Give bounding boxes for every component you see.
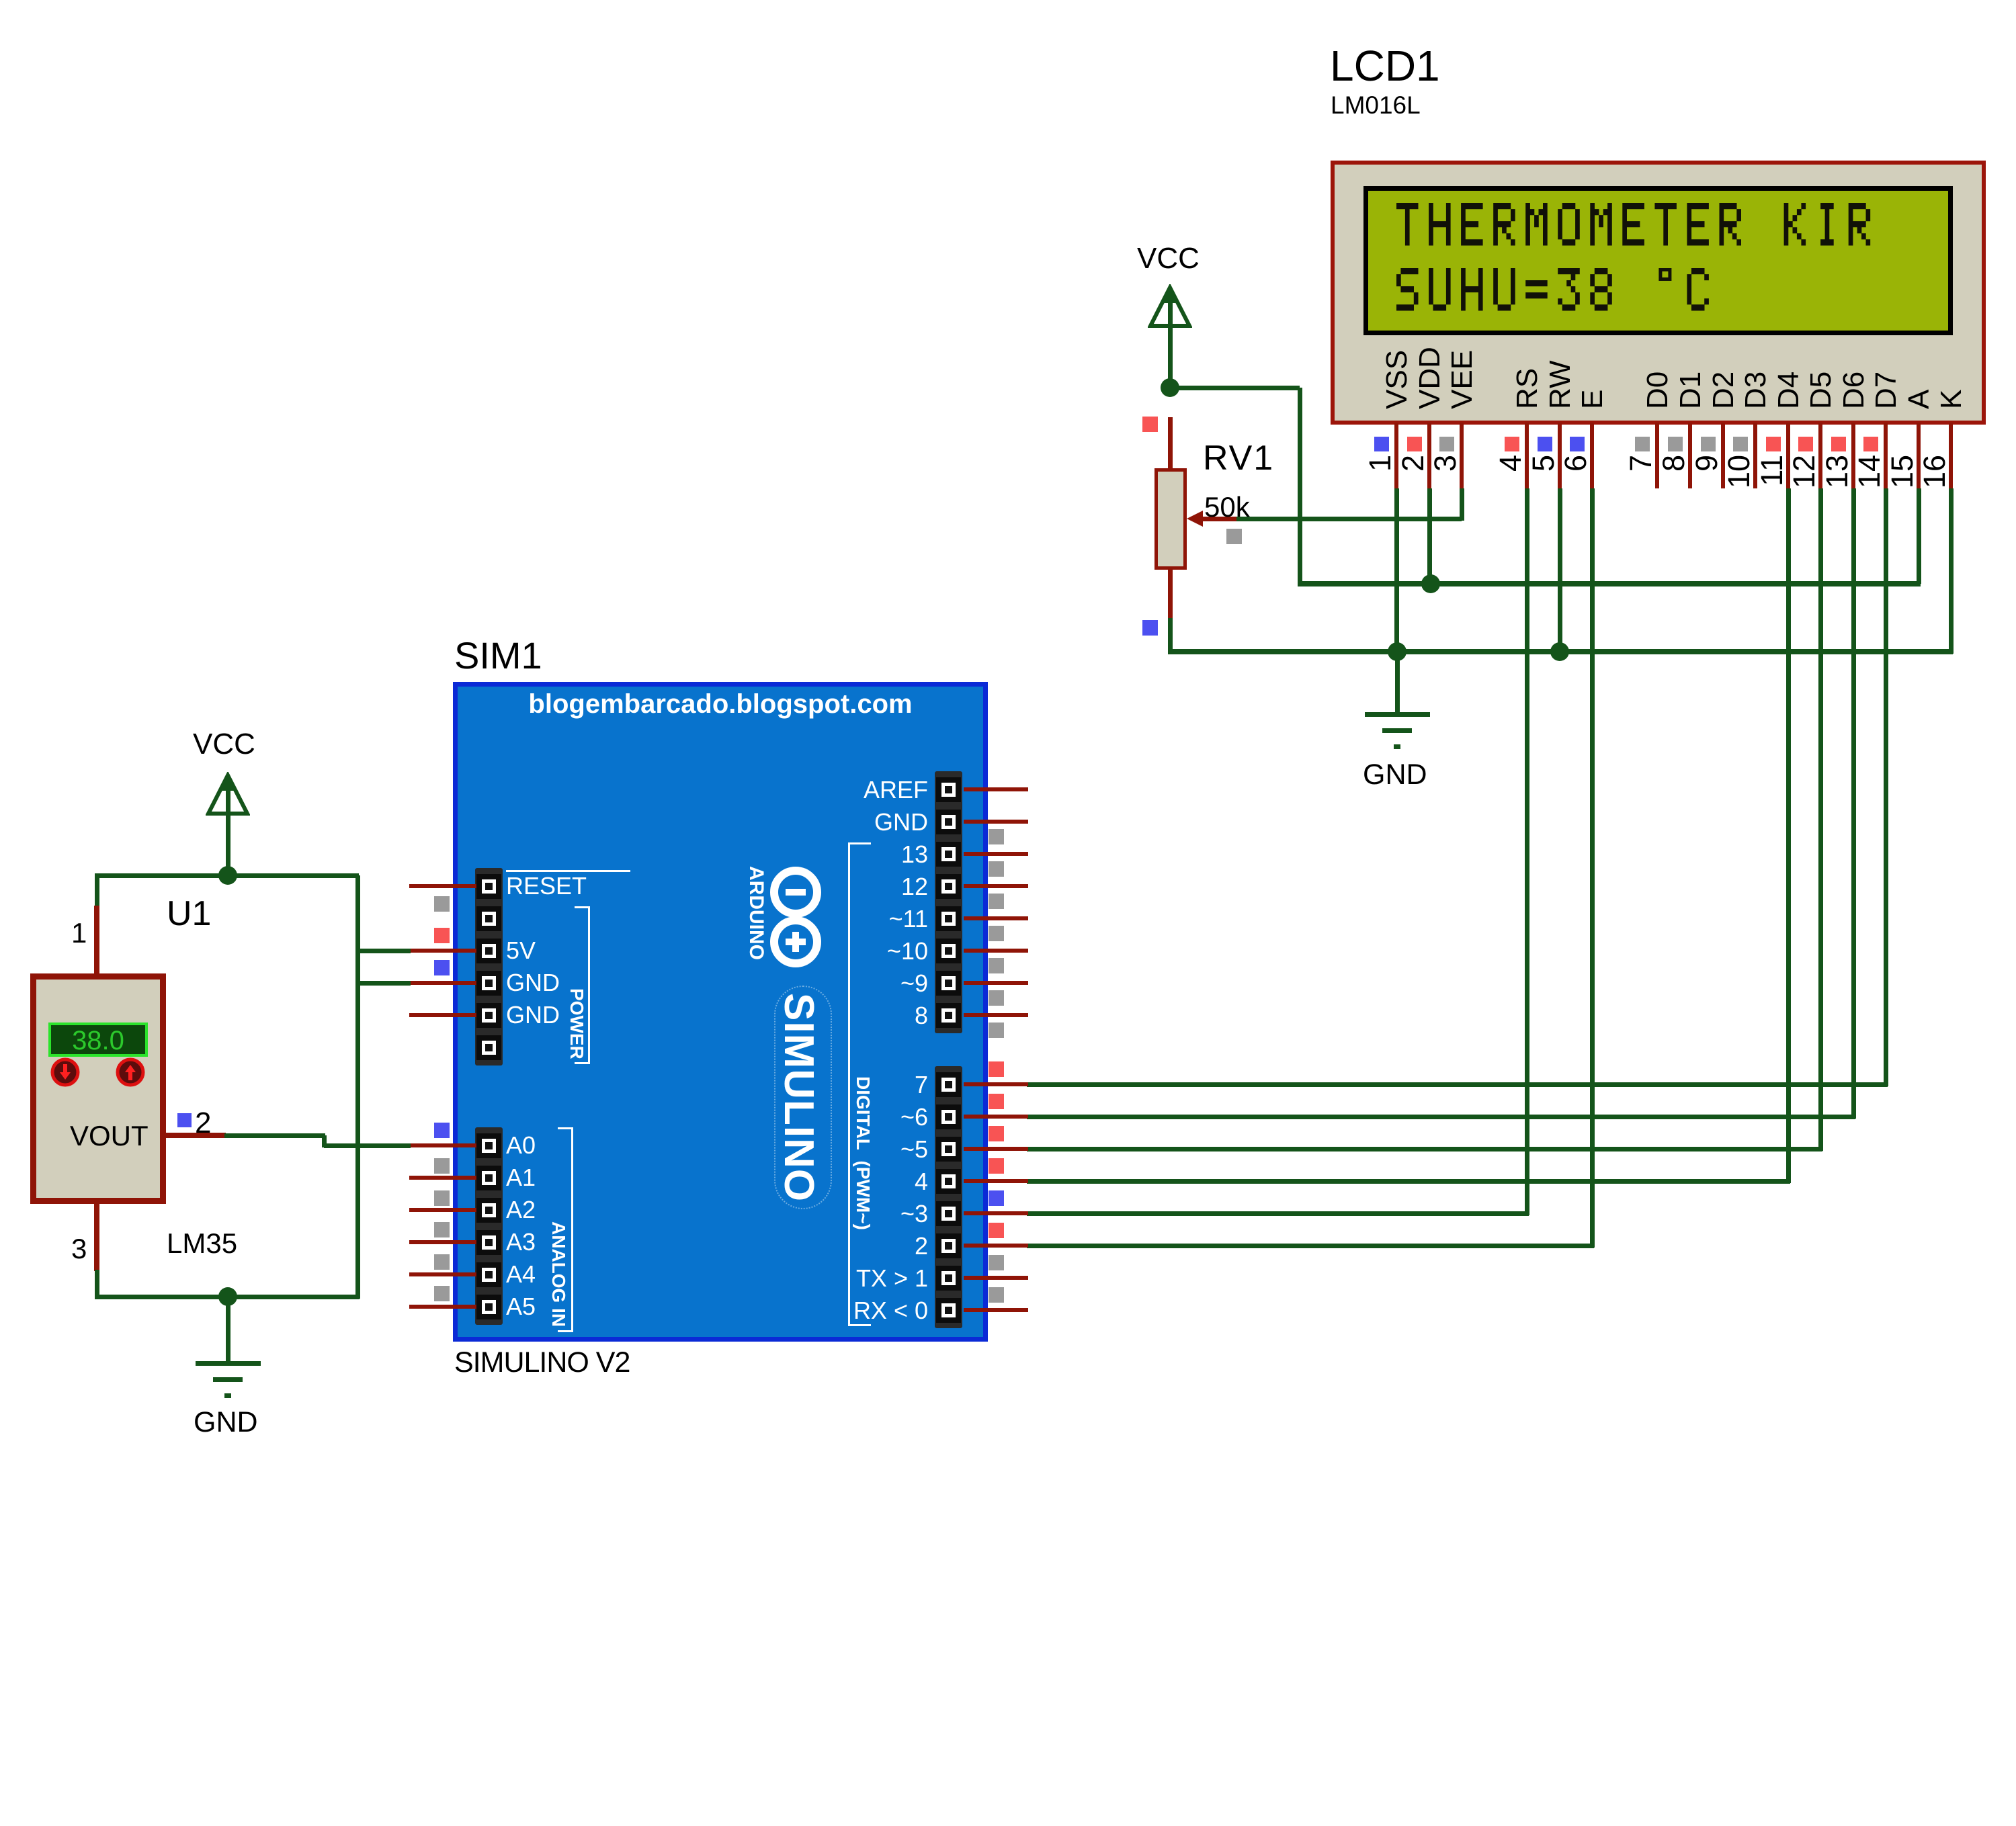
ground symbol (LCD) — [1365, 712, 1430, 717]
wire pin3 down — [95, 1270, 99, 1299]
square gray tr2 — [989, 894, 1004, 909]
wire LCD VSS vertical — [1394, 488, 1399, 652]
arduino pin stub AREF — [964, 787, 1028, 791]
wire digital3 to RS — [1027, 1211, 1529, 1216]
label 12 — [659, 875, 928, 899]
arduino pin stub RESET — [409, 884, 476, 888]
LM35 body — [30, 973, 166, 1204]
LCD pin 2 stub — [1427, 423, 1431, 488]
LCD1 type label LM016L — [1331, 93, 1421, 118]
arduino pin stub RX0 — [964, 1308, 1028, 1312]
arduino pin stub ~11 — [964, 916, 1028, 920]
wire VOUT — [224, 1133, 325, 1138]
SIMULINO V2 label — [454, 1348, 630, 1377]
junction dot VSS/GND — [1388, 642, 1406, 661]
square blue GND — [434, 960, 450, 975]
wire down to VCC bus — [1298, 388, 1302, 586]
LCD pin 8 state square — [1668, 437, 1683, 451]
pin number 2 (U1) — [195, 1108, 211, 1138]
arduino pin stub ~6 — [964, 1115, 1028, 1119]
LM35 display — [48, 1023, 148, 1057]
LCD pin 11 stub — [1786, 423, 1790, 488]
wire VCC horizontal — [95, 873, 359, 878]
label digital 4 — [659, 1170, 928, 1194]
RV1 wiper state square — [1226, 529, 1242, 544]
analog header strip — [475, 1127, 503, 1325]
POWER bracket — [575, 906, 590, 908]
LCD pin label VSS — [1382, 208, 1412, 409]
LCD pin 9 state square — [1701, 437, 1716, 451]
LCD pin number 6 — [1560, 455, 1591, 488]
label A5 — [506, 1295, 536, 1319]
LCD pin label D7 — [1872, 208, 1901, 409]
ANALOG IN label — [549, 1221, 568, 1826]
wire LCD D6 vertical — [1851, 488, 1856, 1119]
RV1 pin1 stub — [1168, 417, 1173, 468]
wire GND stem (LCD) — [1395, 652, 1400, 712]
arduino pin stub A3 — [409, 1240, 476, 1244]
wire LCD E vertical — [1590, 488, 1595, 1248]
VCC bus to LCD A — [1298, 581, 1921, 586]
square blue pin2 — [177, 1113, 192, 1127]
RV1 label — [1203, 441, 1274, 476]
LCD pin label A — [1904, 208, 1934, 409]
LCD pin label VEE — [1447, 208, 1477, 409]
wire LCD RS vertical — [1525, 488, 1529, 1215]
LCD pin 11 state square — [1766, 437, 1781, 451]
SIM1 reference label — [454, 637, 542, 675]
LCD pin number 15 — [1887, 455, 1917, 488]
label digital TX &gt; 1 — [659, 1266, 928, 1291]
wire digital7 to D7 — [1027, 1082, 1888, 1087]
junction dot VDD — [1421, 574, 1440, 593]
square blue A0 — [434, 1123, 450, 1138]
arduino board SIM1 — [453, 682, 988, 1342]
LM35 button up — [115, 1057, 146, 1088]
ARDUINO logo text — [746, 866, 766, 1471]
LCD pin label D3 — [1741, 208, 1771, 409]
LM35 pin3 stub — [94, 1204, 99, 1271]
LCD pin 14 state square — [1863, 437, 1878, 451]
RV1 state square top — [1142, 417, 1158, 432]
label 5V — [506, 939, 536, 963]
pin number 1 (U1) — [71, 919, 87, 947]
LCD pin label RS — [1513, 208, 1542, 409]
label digital ~6 — [659, 1105, 928, 1129]
LCD pin number 13 — [1822, 455, 1852, 488]
LCD pin 1 state square — [1374, 437, 1389, 451]
wire digital2 to E — [1027, 1244, 1594, 1248]
label digital ~3 — [659, 1202, 928, 1226]
SIMULINO label — [778, 993, 819, 1598]
bottomright header strip — [935, 1066, 962, 1328]
square gray A2 — [434, 1190, 450, 1206]
wire LCD K vertical — [1949, 488, 1954, 654]
arduino pin stub ~10 — [964, 949, 1028, 953]
square br5 — [989, 1223, 1004, 1238]
LCD pin number 11 — [1757, 455, 1787, 488]
DIGITAL PWM label — [853, 1076, 872, 1681]
label GND — [506, 971, 560, 995]
SIMULINO outline — [774, 986, 832, 1209]
RV1 pin3 stub — [1168, 570, 1173, 619]
arduino pin stub 2 — [964, 1244, 1028, 1248]
arduino pin stub TX1 — [964, 1276, 1028, 1280]
square br2 — [989, 1126, 1004, 1141]
LCD pin 14 stub — [1884, 423, 1888, 488]
wire GND horizontal (LM35) — [95, 1295, 360, 1299]
LCD pin label D6 — [1839, 208, 1869, 409]
wire GND lead — [357, 981, 411, 986]
junction dot RW/GND — [1550, 642, 1569, 661]
wire junction right — [1168, 386, 1300, 390]
square gray A5 — [434, 1286, 450, 1301]
label GND — [659, 810, 928, 834]
square gray tr3 — [989, 926, 1004, 941]
label A3 — [506, 1230, 536, 1254]
LCD pin 3 stub — [1460, 423, 1464, 488]
label ~10 — [659, 939, 928, 963]
LCD pin 4 stub — [1525, 423, 1529, 488]
LCD text line1 THERMOMETER KIR — [0, 0, 2016, 470]
label AREF — [659, 778, 928, 802]
square gray RESET — [434, 896, 450, 912]
LCD pin number 4 — [1495, 455, 1525, 488]
label ~11 — [659, 907, 928, 931]
RV1 state square bottom — [1142, 620, 1158, 636]
LCD pin label D0 — [1643, 208, 1673, 409]
LCD1 body — [1331, 161, 1986, 425]
label digital 7 — [659, 1073, 928, 1097]
RESET divider line — [506, 870, 630, 872]
arduino pin stub A5 — [409, 1305, 476, 1309]
LCD pin 13 stub — [1851, 423, 1855, 488]
wire A0 lead — [324, 1143, 411, 1148]
wire VOUT to A0 — [324, 1143, 411, 1148]
LCD pin number 10 — [1724, 455, 1754, 488]
pin number 3 (U1) — [71, 1235, 87, 1263]
label A1 — [506, 1166, 536, 1190]
arduino pin stub 5V — [409, 949, 476, 953]
LCD pin 12 stub — [1818, 423, 1822, 488]
LCD1 screen — [1363, 186, 1953, 335]
arduino pin stub ~3 — [964, 1211, 1028, 1215]
label A2 — [506, 1198, 536, 1222]
square br1 — [989, 1094, 1004, 1109]
LCD pin number 1 — [1365, 455, 1395, 488]
label GND2 — [506, 1003, 560, 1027]
arduino pin stub A4 — [409, 1272, 476, 1276]
arduino pin stub 12 — [964, 884, 1028, 888]
wire RV1 bottom to GND bus — [1168, 618, 1173, 654]
LCD pin 5 state square — [1538, 437, 1552, 451]
blogembarcado.blogspot.com title — [453, 691, 988, 718]
arduino logo circles — [762, 859, 836, 980]
LCD pin label D1 — [1676, 208, 1706, 409]
U1 reference label — [167, 896, 211, 931]
topright header strip — [935, 771, 962, 1033]
arduino pin stub A2 — [409, 1208, 476, 1212]
arduino pin stub 8 — [964, 1013, 1028, 1017]
LCD pin number 3 — [1430, 455, 1460, 488]
LCD pin 6 state square — [1570, 437, 1585, 451]
GND label (LCD) — [1363, 760, 1427, 789]
ANALOG IN bracket — [558, 1127, 573, 1129]
GND label (LM35) — [194, 1408, 258, 1437]
square gray tr6 — [989, 1023, 1004, 1038]
GND bus — [1168, 649, 1953, 654]
label RESET — [506, 874, 587, 898]
LCD pin number 5 — [1528, 455, 1558, 488]
wire digital5 to D5 — [1027, 1147, 1822, 1151]
LCD pin 12 state square — [1798, 437, 1813, 451]
LCD pin 10 stub — [1753, 423, 1757, 488]
LM35 pin2 stub — [166, 1133, 226, 1138]
LCD pin 7 stub — [1655, 423, 1659, 488]
arduino pin stub ~9 — [964, 981, 1028, 985]
wire digital4 to D4 — [1027, 1179, 1790, 1184]
DIGITAL bracket — [848, 842, 871, 844]
VCC label (RV1) — [1137, 244, 1200, 273]
LCD pin 4 state square — [1505, 437, 1519, 451]
wire VCC down (LM35) — [226, 816, 230, 877]
LCD pin label E — [1578, 208, 1607, 409]
LCD pin 16 stub — [1949, 423, 1953, 488]
RV1 value 50k — [1204, 493, 1250, 521]
square br6 — [989, 1255, 1004, 1270]
wire LCD RW vertical — [1558, 488, 1562, 652]
square red 5V — [434, 928, 450, 943]
label digital 2 — [659, 1234, 928, 1258]
wire 5V lead — [357, 949, 411, 953]
label ~9 — [659, 971, 928, 996]
LCD pin label RW — [1546, 208, 1575, 409]
square gray A1 — [434, 1158, 450, 1174]
LCD pin 2 state square — [1407, 437, 1422, 451]
RV1 wiper arrow — [1185, 509, 1239, 529]
LM35 VOUT label — [70, 1122, 149, 1150]
label digital ~5 — [659, 1137, 928, 1162]
square gray tr5 — [989, 990, 1004, 1006]
square gray tr4 — [989, 958, 1004, 973]
LCD pin label D2 — [1709, 208, 1738, 409]
arduino pin stub 4 — [964, 1179, 1028, 1183]
label digital RX &lt; 0 — [659, 1299, 928, 1323]
square br3 — [989, 1158, 1004, 1174]
square gray tr0 — [989, 829, 1004, 844]
LCD pin number 8 — [1658, 455, 1689, 488]
LCD pin 9 stub — [1721, 423, 1725, 488]
junction dot VCC/RV1 — [1161, 378, 1179, 397]
LCD pin 13 state square — [1831, 437, 1846, 451]
label A4 — [506, 1262, 536, 1287]
wire right down (5V/GND) — [355, 875, 360, 1299]
wire LCD A vertical — [1917, 488, 1921, 584]
LCD pin label D5 — [1806, 208, 1836, 409]
wire LCD D5 vertical — [1818, 488, 1823, 1151]
LCD pin number 9 — [1691, 455, 1722, 488]
wire LCD D4 vertical — [1786, 488, 1791, 1183]
wire digital6 to D6 — [1027, 1115, 1855, 1119]
LM35 pin1 stub — [94, 906, 99, 975]
wire LCD VEE vertical — [1460, 488, 1464, 521]
LCD pin 1 stub — [1394, 423, 1398, 488]
LM35 type label — [167, 1229, 237, 1258]
wire VCC to junction — [1168, 328, 1173, 390]
LCD pin label K — [1937, 208, 1966, 409]
label 8 — [659, 1004, 928, 1028]
RV1 wiper wire to VEE — [1236, 517, 1462, 521]
wire VOUT jog — [322, 1135, 327, 1147]
arduino pin stub A0 — [409, 1143, 476, 1147]
LCD pin number 2 — [1398, 455, 1428, 488]
square br0 — [989, 1061, 1004, 1077]
label 13 — [659, 842, 928, 867]
square gray tr1 — [989, 861, 1004, 877]
LCD pin number 14 — [1854, 455, 1884, 488]
arduino pin stub A1 — [409, 1176, 476, 1180]
LCD pin 15 stub — [1917, 423, 1921, 488]
wire GND stem (LM35) — [226, 1297, 230, 1361]
junction dot GND LM35 — [218, 1287, 237, 1306]
label A0 — [506, 1133, 536, 1158]
LCD pin 10 state square — [1733, 437, 1748, 451]
square br4 — [989, 1190, 1004, 1206]
LCD pin 7 state square — [1635, 437, 1650, 451]
square br7 — [989, 1287, 1004, 1303]
RV1 body — [1154, 468, 1187, 570]
power header strip — [475, 868, 503, 1066]
LCD pin number 12 — [1789, 455, 1819, 488]
ground symbol (LM35) — [196, 1361, 261, 1366]
LCD pin number 7 — [1626, 455, 1656, 488]
LCD pin label VDD — [1415, 208, 1445, 409]
junction dot VCC LM35 — [218, 866, 237, 885]
arduino pin stub GND — [409, 981, 476, 985]
square gray A4 — [434, 1254, 450, 1270]
LM35 button down — [50, 1057, 81, 1088]
arduino pin stub ~5 — [964, 1147, 1028, 1151]
LCD text line2 SUHU=38 C — [0, 0, 2016, 470]
LCD pin 5 stub — [1558, 423, 1562, 488]
LCD pin 3 state square — [1439, 437, 1454, 451]
LCD pin 8 stub — [1688, 423, 1692, 488]
wire LCD VDD vertical — [1427, 488, 1432, 584]
LCD pin label D4 — [1774, 208, 1804, 409]
LCD pin 6 stub — [1590, 423, 1594, 488]
arduino pin stub 7 — [964, 1082, 1028, 1086]
VCC symbol (RV1) — [1148, 284, 1192, 330]
wire LCD D7 vertical — [1884, 488, 1888, 1086]
POWER label — [567, 988, 586, 1593]
LCD pin number 16 — [1919, 455, 1949, 488]
arduino pin stub GND — [964, 820, 1028, 824]
arduino pin stub 13 — [964, 852, 1028, 856]
arduino pin stub GND2 — [409, 1013, 476, 1017]
LM35 display value 38.0 — [48, 1027, 148, 1054]
wire to LM35 pin1 — [95, 875, 99, 907]
VCC label (LM35) — [193, 730, 255, 759]
square gray A3 — [434, 1222, 450, 1237]
VCC symbol (LM35) — [206, 772, 250, 818]
LCD1 component label — [1330, 44, 1440, 87]
